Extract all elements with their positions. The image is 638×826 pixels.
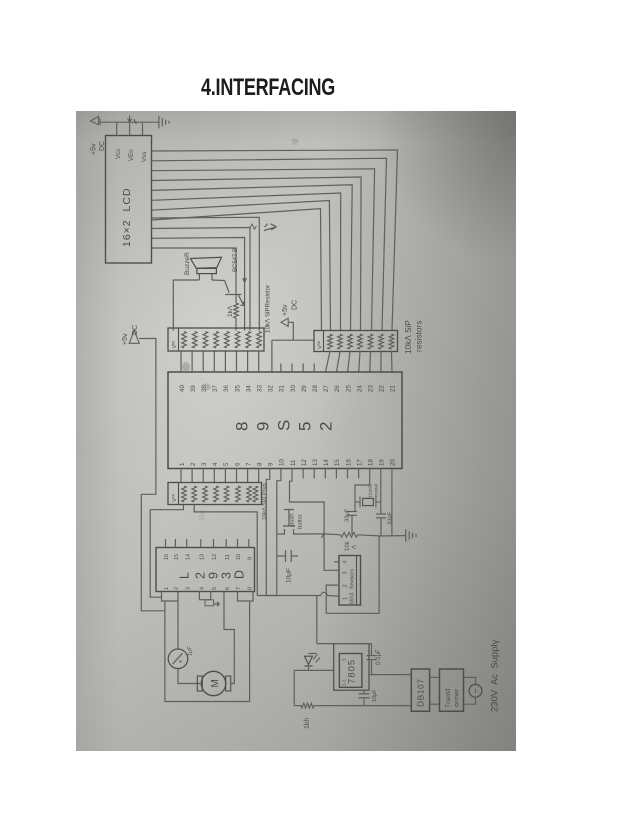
wire regulator input: [294, 669, 334, 671]
svg-text:M: M: [210, 679, 221, 687]
svg-text:D: D: [233, 570, 247, 579]
wire RN3 pin2 down right: [194, 505, 257, 596]
motor M1 dc motor: [201, 671, 225, 695]
svg-text:34: 34: [245, 385, 252, 392]
resistor R3 1k: [294, 705, 301, 707]
+5V supply symbol (MCU): [281, 318, 288, 326]
wire RN3 to left bus: [150, 505, 183, 510]
left +5V supply symbol (driver): [129, 330, 139, 343]
svg-text:8: 8: [257, 462, 264, 466]
svg-text:19: 19: [379, 459, 386, 466]
resistor 1k base: [235, 295, 237, 304]
wire pin32 to +5V rail: [271, 340, 273, 372]
svg-text:12: 12: [212, 554, 218, 560]
svg-text:DB107: DB107: [416, 679, 426, 708]
svg-text:1kһ: 1kһ: [303, 718, 311, 729]
microcontroller U1 AT89S52 40-pin box: [168, 372, 402, 469]
motor driver U2 L293D box: [156, 548, 255, 592]
wire down to regulator section: [316, 596, 318, 644]
wire +5V to pin31 rail: [288, 322, 293, 340]
svg-text:40: 40: [179, 385, 186, 392]
capacitor C1 33pF: [347, 511, 357, 513]
MQ3 pin4 stub: [334, 561, 339, 563]
outer motor loop wire: [165, 601, 250, 702]
svg-text:0⋅1μF: 0⋅1μF: [376, 649, 382, 665]
svg-text:6: 6: [225, 587, 231, 590]
svg-text:7: 7: [245, 462, 252, 466]
AC source symbol: [464, 677, 476, 684]
ground wire and symbol right: [381, 535, 402, 537]
svg-text:18: 18: [368, 459, 375, 466]
capacitor C3 10uF near button: [285, 550, 287, 562]
svg-text:1: 1: [343, 597, 349, 600]
svg-text:Ʌ: Ʌ: [352, 545, 358, 549]
svg-text:9: 9: [207, 572, 221, 579]
wire circle to motor: [178, 669, 202, 684]
SIP pack RN3 below MCU: [168, 483, 262, 505]
transistor Q1 BC547: [212, 279, 225, 282]
svg-text:2: 2: [343, 584, 349, 587]
svg-text:10: 10: [279, 459, 286, 466]
contrast wiper arrow on rail: [129, 116, 131, 123]
svg-text:22: 22: [379, 385, 386, 392]
wire to MQ3 pin1 with hop: [257, 595, 321, 597]
resistor R2 10k: [324, 533, 340, 536]
transformer T1 box: [440, 669, 464, 711]
bridge rectifier U5 DB107: [411, 669, 429, 711]
power rail +5V for LCD: [99, 121, 159, 123]
wire pin19 to crystal: [380, 479, 382, 514]
svg-text:28: 28: [312, 385, 319, 392]
capacitor C5 10uF: [363, 690, 365, 694]
svg-text:cгүstаl: cгүstаl: [374, 484, 379, 497]
LCD data bus 8 wires to pull-up SIP: [152, 150, 398, 331]
svg-text:15: 15: [334, 459, 341, 466]
capacitor C4 0.1uF: [371, 644, 373, 656]
ground symbol (LCD rail): [158, 116, 160, 128]
svg-text:4: 4: [343, 560, 349, 563]
regulator U4 7805 outer box: [334, 644, 369, 691]
wire pin11 to push button node: [290, 479, 325, 534]
svg-text:+5v: +5v: [122, 333, 129, 345]
svg-text:1kɅ: 1kɅ: [227, 305, 234, 317]
svg-text:4: 4: [199, 587, 205, 590]
svg-text:3: 3: [185, 587, 191, 590]
svg-text:2: 2: [317, 422, 336, 431]
wire pin10 down: [277, 479, 281, 596]
svg-text:VEo: VEo: [128, 149, 135, 161]
svg-text:4: 4: [212, 462, 219, 466]
svg-text:Vcc: Vcc: [115, 149, 122, 159]
svg-text:5: 5: [212, 587, 218, 590]
svg-text:2: 2: [194, 572, 208, 579]
svg-text:7: 7: [236, 587, 242, 590]
wire pin18 to crystal: [355, 479, 370, 512]
svg-text:14: 14: [185, 554, 191, 560]
svg-text:8: 8: [247, 587, 253, 590]
svg-text:10kɅ SіP: 10kɅ SіP: [404, 320, 413, 354]
LCD module 16X2 box: [106, 136, 152, 264]
LCD control wire RS: [152, 238, 245, 331]
svg-text:5: 5: [223, 462, 230, 466]
svg-text:35: 35: [234, 385, 241, 392]
wire pin9 down: [266, 479, 270, 596]
svg-text:33pF: 33pF: [388, 511, 394, 525]
svg-text:BuzzeR: BuzzeR: [184, 252, 191, 275]
svg-text:3: 3: [220, 572, 234, 579]
svg-text:S: S: [275, 420, 294, 431]
LCD control wire to buzzer transistor: [152, 248, 237, 295]
L293D top pin stubs: [165, 539, 167, 548]
svg-text:31: 31: [279, 385, 286, 392]
svg-text:7805: 7805: [347, 659, 358, 684]
L293D ground tab 2: [199, 592, 210, 600]
svg-text:2: 2: [174, 587, 180, 590]
push button S1: [277, 533, 285, 535]
wire tab1 to sensor circle: [177, 601, 179, 649]
wires bridge to transformer: [430, 676, 440, 678]
svg-text:36: 36: [223, 385, 230, 392]
smudge marks on paper: [182, 362, 190, 372]
svg-text:DC: DC: [292, 300, 299, 310]
svg-text:29: 29: [301, 385, 308, 392]
svg-text:15: 15: [174, 554, 180, 560]
speed sensor circle: [168, 649, 188, 669]
svg-text:BC547 B: BC547 B: [233, 248, 239, 272]
svg-text:10μF: 10μF: [286, 568, 293, 583]
svg-text:37: 37: [212, 385, 219, 392]
svg-text:39: 39: [190, 385, 197, 392]
svg-text:23: 23: [368, 385, 375, 392]
svg-text:2: 2: [190, 462, 197, 466]
svg-text:1: 1: [179, 462, 186, 466]
svg-text:+5v: +5v: [91, 143, 98, 155]
svg-text:26: 26: [334, 385, 341, 392]
svg-text:21: 21: [390, 385, 397, 392]
svg-text:Vʱʱ: Vʱʱ: [317, 341, 324, 349]
svg-text:рusһ: рusһ: [290, 513, 296, 526]
svg-text:14: 14: [323, 459, 330, 466]
svg-text:buttог: buttог: [298, 514, 304, 529]
svg-text:17: 17: [356, 459, 363, 466]
pull-up SIP pack RN1 above MCU: [168, 328, 264, 351]
svg-text:32: 32: [268, 385, 275, 392]
svg-text:Vss: Vss: [141, 152, 148, 162]
LCD pin wires Vcc Veo Vss: [116, 122, 118, 135]
svg-text:33μF: 33μF: [345, 508, 351, 522]
svg-text:6: 6: [234, 462, 241, 466]
LCD control wire RW with arrow: [152, 228, 251, 331]
wires MCU pins 1-8 to SIP RN3: [180, 479, 182, 483]
MQ3 pin3 wire to button node: [324, 534, 339, 570]
L293D ground tab 3: [238, 592, 254, 602]
svg-text:10kɅ SW Pгұр: 10kɅ SW Pгұр: [262, 483, 268, 520]
svg-text:Vʱʱ: Vʱʱ: [171, 494, 178, 502]
svg-text:30: 30: [290, 385, 297, 392]
gas sensor U3 MQ3 box: [339, 556, 361, 606]
svg-text:13: 13: [199, 554, 205, 560]
capacitor C2 33pF: [376, 513, 386, 515]
svg-text:9: 9: [268, 462, 275, 466]
svg-text:3: 3: [343, 571, 349, 574]
svg-text:25: 25: [345, 385, 352, 392]
L293D ground tab 1: [162, 592, 179, 602]
crystal X1 11.0592MHz: [363, 498, 374, 505]
svg-text:16: 16: [164, 554, 170, 560]
svg-text:8: 8: [233, 422, 252, 431]
svg-text:1: 1: [164, 587, 170, 590]
LED D1 power indicator: [309, 653, 317, 655]
MCU top pin stubs and numbers 40-21: [180, 352, 182, 373]
left loop of LED circuit: [293, 670, 295, 705]
regulator output wire: [369, 674, 411, 676]
svg-text:11: 11: [290, 459, 297, 466]
svg-text:Tгаоsf: Tгаоsf: [445, 689, 452, 708]
svg-text:~: ~: [471, 688, 481, 693]
svg-text:9: 9: [247, 557, 253, 560]
wire over regulator: [317, 643, 372, 645]
wire pin20 ground: [391, 479, 393, 537]
svg-text:огmeг: огmeг: [454, 688, 461, 707]
svg-text:13: 13: [312, 459, 319, 466]
pull-up SIP pack RN2 right: [314, 331, 398, 352]
svg-text:1 2: 1 2: [342, 679, 347, 686]
svg-text:11оѕ92: 11оѕ92: [368, 483, 373, 498]
regulator 7805 box: [339, 654, 362, 688]
svg-text:10kɅ SіPResіstог: 10kɅ SіPResіstог: [265, 284, 272, 333]
small box with arrow under tab2: [205, 600, 214, 606]
svg-text:230V Ac Suррlү: 230V Ac Suррlү: [490, 639, 501, 712]
svg-text:10: 10: [236, 554, 242, 560]
svg-text:11: 11: [225, 554, 231, 560]
svg-text:16×2 LCD: 16×2 LCD: [121, 188, 133, 248]
buzzer wires: [198, 274, 200, 280]
svg-text:3: 3: [201, 462, 208, 466]
wires SIP RN2 to pins 21-27: [325, 352, 330, 373]
svg-text:12: 12: [301, 459, 308, 466]
LCD control wire E: [152, 217, 260, 330]
MQ3 pin2 wire loop: [326, 536, 379, 613]
svg-text:33: 33: [257, 385, 264, 392]
svg-text:5: 5: [296, 422, 315, 431]
svg-text:MɅ3 Seиsогѕ: MɅ3 Seиsогѕ: [350, 568, 356, 604]
svg-text:гesіstогѕ: гesіstогѕ: [415, 321, 424, 352]
left bus wire from +5V: [139, 339, 165, 611]
svg-text:24: 24: [356, 385, 363, 392]
svg-text:16: 16: [345, 459, 352, 466]
svg-text:1μF: 1μF: [188, 646, 194, 656]
svg-text:27: 27: [323, 385, 330, 392]
+5V supply symbol (LCD): [91, 116, 99, 124]
svg-text:Vʱʱ: Vʱʱ: [171, 341, 178, 349]
svg-text:9: 9: [254, 422, 273, 431]
svg-text:+5v: +5v: [282, 304, 289, 316]
svg-text:20: 20: [390, 459, 397, 466]
svg-text:10k: 10k: [345, 540, 351, 551]
junction tick at button node: [321, 534, 324, 538]
free arrow mark near RW: [264, 227, 277, 231]
svg-text:3: 3: [342, 658, 347, 661]
svg-text:DC: DC: [132, 325, 139, 335]
buzzer BUZZER speaker symbol: [191, 257, 222, 268]
svg-text:10μF: 10μF: [372, 689, 378, 702]
MCU bottom pin stubs and numbers 1-20: [180, 469, 182, 479]
wire motor right side: [224, 592, 234, 684]
svg-text:L: L: [178, 572, 192, 579]
